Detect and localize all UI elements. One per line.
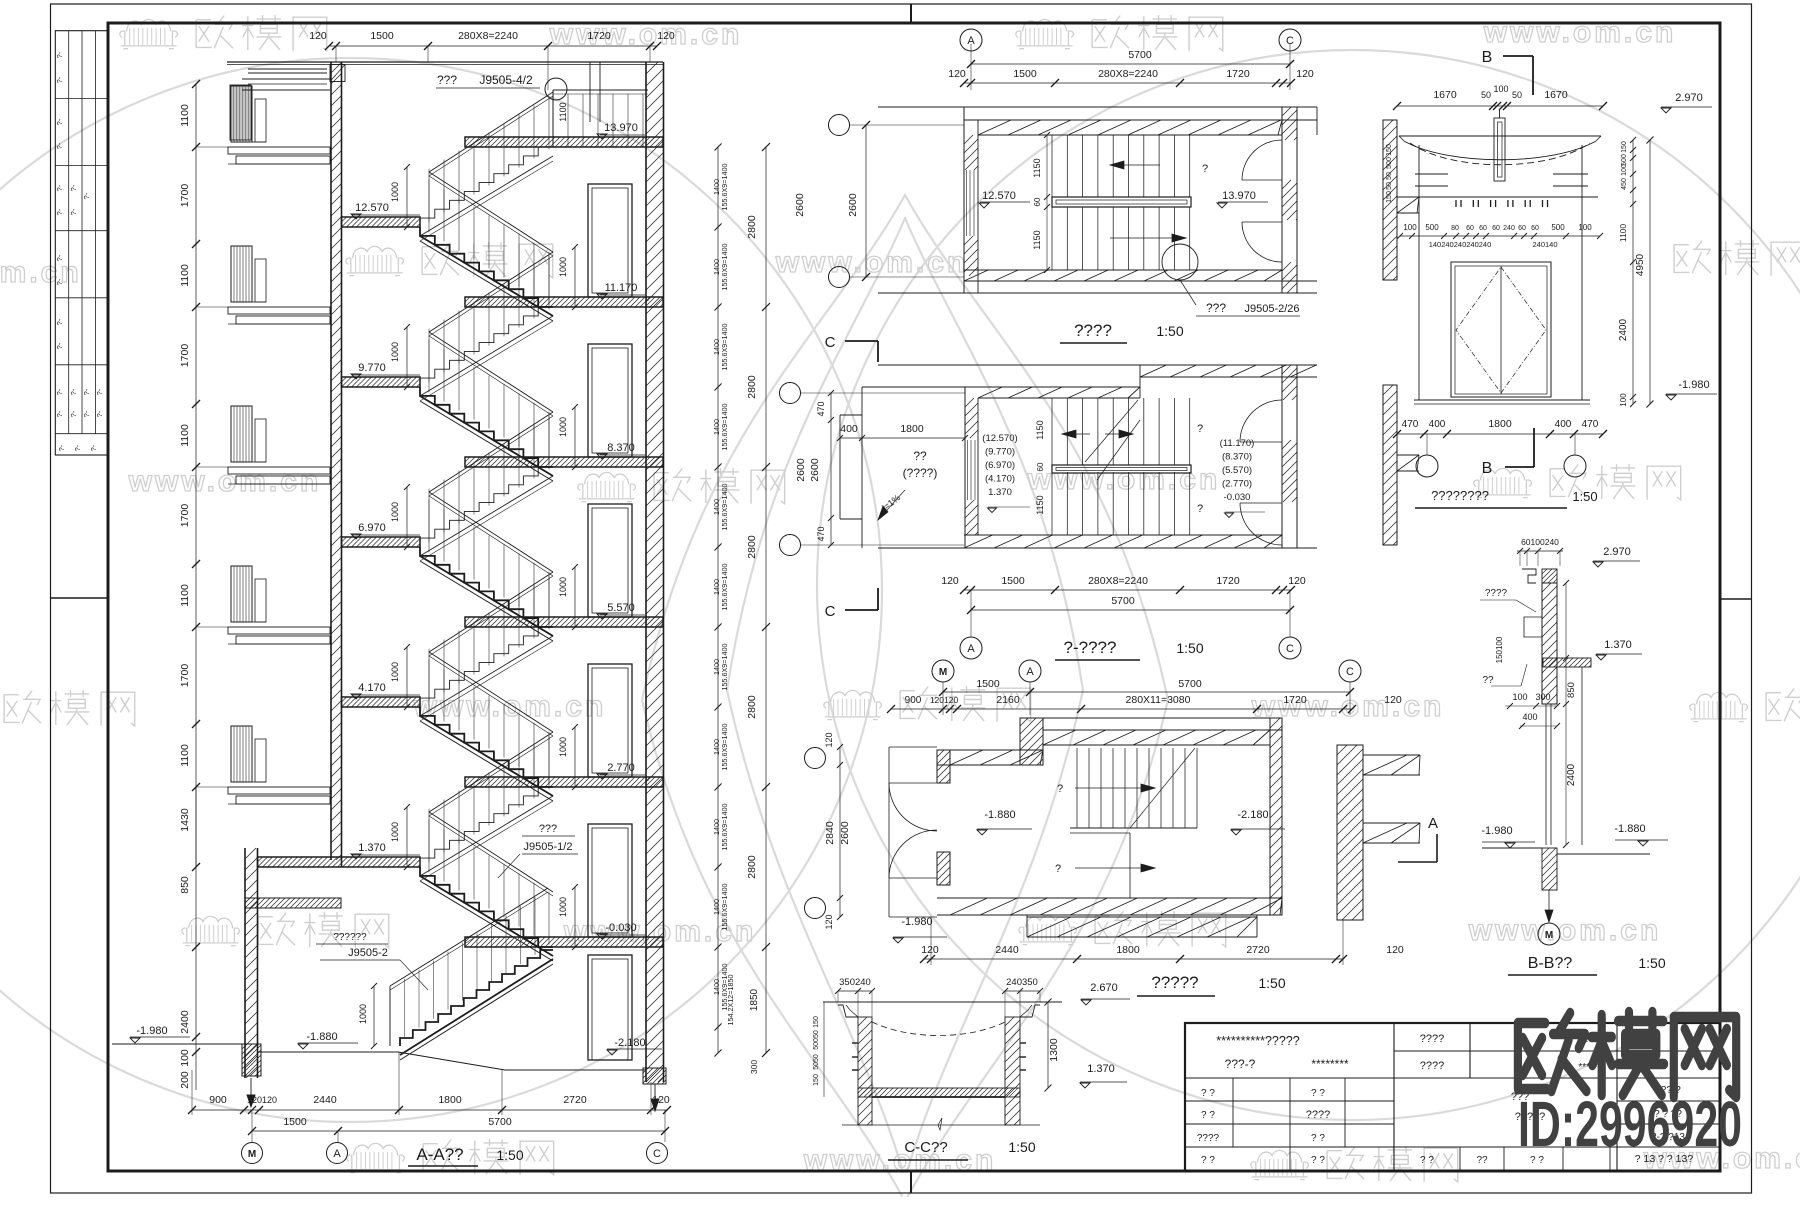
svg-text:1400: 1400: [712, 419, 721, 435]
landing slab 12.570: [342, 217, 421, 227]
svg-text:?????: ?????: [1151, 973, 1198, 992]
svg-text:1800: 1800: [1488, 418, 1512, 430]
svg-text:400: 400: [840, 423, 858, 435]
svg-text:2720: 2720: [1246, 944, 1270, 956]
svg-text:150100: 150100: [1495, 636, 1504, 663]
svg-text:155.6X9=1400: 155.6X9=1400: [720, 644, 729, 691]
svg-text:120120: 120120: [930, 695, 959, 705]
section top dim row: [329, 45, 657, 47]
svg-text:www.om.cn: www.om.cn: [1483, 16, 1677, 49]
svg-text:????????: ????????: [1431, 488, 1489, 503]
svg-text:********: ********: [1311, 1057, 1349, 1071]
svg-text:155.6X9=1400: 155.6X9=1400: [720, 724, 729, 771]
svg-text:-1.980: -1.980: [136, 1025, 167, 1037]
ground plan top wall: [1020, 717, 1282, 719]
svg-text:B: B: [1482, 49, 1493, 66]
std plan treads: [1051, 398, 1053, 465]
svg-text:?-: ?-: [82, 192, 91, 199]
balcony floor 3: [231, 566, 252, 622]
svg-text:J9505-2/26: J9505-2/26: [1244, 303, 1299, 315]
ground floor plan: [805, 660, 1421, 996]
svg-text:5700: 5700: [1178, 678, 1202, 690]
svg-text:???-?: ???-?: [1225, 1057, 1256, 1071]
svg-text:2600: 2600: [839, 821, 851, 845]
svg-text:2800: 2800: [746, 695, 758, 719]
flight sectioned module 3: [420, 707, 553, 787]
svg-text:500: 500: [1425, 223, 1439, 232]
outdoor ground -1.980: [112, 1043, 245, 1045]
svg-text:4.170: 4.170: [358, 682, 386, 694]
svg-text:?-: ?-: [69, 388, 78, 395]
svg-text:120120: 120120: [247, 1095, 277, 1105]
louvers: [1415, 173, 1448, 175]
svg-text:100: 100: [1621, 164, 1628, 176]
svg-text:C: C: [1346, 666, 1354, 678]
svg-text:50: 50: [1386, 182, 1393, 190]
door ground: [588, 955, 632, 1060]
svg-text:www.om.cn: www.om.cn: [413, 690, 607, 723]
svg-text:?-: ?-: [55, 184, 64, 191]
landing slab 4.170: [342, 697, 421, 707]
door floor 3: [588, 664, 632, 777]
ground plan porch outline: [888, 747, 890, 917]
flight elevation module 2: [420, 467, 553, 547]
svg-text:-1.980: -1.980: [1481, 825, 1512, 837]
door floor 0: [588, 184, 632, 297]
flight elevation module 3: [420, 627, 553, 707]
svg-text:1:50: 1:50: [1572, 489, 1597, 504]
svg-text:-0.030: -0.030: [605, 922, 636, 934]
svg-text:154.2X12=1850: 154.2X12=1850: [726, 975, 735, 1026]
svg-text:150: 150: [1386, 191, 1393, 203]
svg-text:1.370: 1.370: [1604, 639, 1632, 651]
standard floor plan: [780, 334, 1420, 660]
svg-text:1500: 1500: [1001, 575, 1025, 587]
svg-text:1.370: 1.370: [988, 487, 1012, 498]
svg-text:1000: 1000: [558, 577, 568, 597]
svg-text:1100: 1100: [179, 584, 191, 607]
svg-text:2600: 2600: [794, 193, 806, 217]
svg-text:155.6X9=1400: 155.6X9=1400: [720, 324, 729, 371]
balcony floor 2: [231, 406, 252, 462]
svg-text:12.570: 12.570: [982, 190, 1016, 202]
svg-text:(9.770): (9.770): [985, 447, 1015, 458]
svg-text:? ?: ? ?: [1201, 1155, 1215, 1166]
svg-text:1:50: 1:50: [1258, 975, 1285, 991]
svg-text:J9505-4/2: J9505-4/2: [479, 73, 533, 87]
top plan balloon leader: [1162, 244, 1198, 280]
svg-text:2800: 2800: [746, 855, 758, 879]
svg-text:300: 300: [1535, 692, 1550, 702]
svg-text:155.6X9=1400: 155.6X9=1400: [720, 244, 729, 291]
svg-text:(11.170): (11.170): [1220, 438, 1255, 449]
section bottom dims: [188, 1052, 671, 1166]
section right dim chains: [712, 143, 806, 1074]
svg-text:?-: ?-: [57, 444, 66, 451]
svg-text:1000: 1000: [390, 502, 400, 522]
door floor 4: [588, 824, 632, 937]
svg-text:? ?: ? ?: [1311, 1133, 1325, 1144]
svg-text:?-: ?-: [55, 254, 64, 261]
svg-text:C: C: [825, 603, 836, 620]
svg-text:1000: 1000: [390, 342, 400, 362]
svg-text:?-: ?-: [55, 142, 64, 149]
svg-text:120: 120: [1384, 694, 1402, 706]
svg-text:????: ????: [1074, 321, 1112, 340]
svg-text:1670: 1670: [1544, 89, 1568, 101]
top plan stair treads: [1051, 135, 1053, 197]
std plan top wall: [878, 364, 1317, 366]
grid bubble C top: [1279, 29, 1301, 51]
svg-text:1:50: 1:50: [1638, 955, 1665, 971]
svg-text:400: 400: [1555, 419, 1572, 430]
svg-text:???: ???: [539, 823, 557, 835]
svg-text:100: 100: [1619, 393, 1628, 407]
svg-text:280X8=2240: 280X8=2240: [1098, 68, 1158, 80]
svg-text:155.6X9=1400: 155.6X9=1400: [720, 484, 729, 531]
svg-text:2720: 2720: [563, 1094, 587, 1106]
svg-text:150: 150: [813, 1016, 820, 1028]
floor slab 8.370: [465, 457, 663, 467]
svg-text:1000: 1000: [558, 737, 568, 757]
svg-text:1:50: 1:50: [1156, 323, 1183, 339]
svg-text:1700: 1700: [179, 664, 191, 688]
svg-text:?-: ?-: [55, 410, 64, 417]
svg-text:1000: 1000: [358, 1004, 368, 1024]
svg-text:1100: 1100: [179, 264, 191, 287]
svg-text:?: ?: [1055, 863, 1061, 875]
svg-text:1300: 1300: [1048, 1038, 1060, 1062]
entrance canopy slab left: [245, 898, 341, 908]
svg-text:50: 50: [1481, 90, 1491, 100]
svg-text:1100: 1100: [179, 104, 191, 127]
flight sectioned module 2: [420, 547, 553, 627]
svg-text:1700: 1700: [179, 344, 191, 368]
svg-text:1800: 1800: [900, 423, 924, 435]
svg-text:A-A??: A-A??: [416, 1145, 463, 1164]
ground plan entry doors: [889, 782, 937, 784]
svg-text:C-C??: C-C??: [904, 1139, 947, 1156]
svg-text:5050: 5050: [813, 1054, 820, 1070]
svg-text:?-: ?-: [55, 118, 64, 125]
svg-text:155.6X9=1400: 155.6X9=1400: [720, 564, 729, 611]
svg-text:240140: 240140: [1532, 240, 1557, 249]
landing slab 1.370: [258, 857, 421, 867]
watermark circle left: [0, 58, 882, 1122]
indoor ground -1.880: [258, 1051, 399, 1053]
title block: [1185, 1023, 1720, 1171]
svg-text:?: ?: [1202, 163, 1208, 175]
svg-text:140240240240240: 140240240240240: [1429, 240, 1492, 249]
svg-text:300: 300: [749, 1060, 759, 1074]
svg-text:60: 60: [1466, 225, 1474, 232]
flight sectioned module 1: [420, 387, 553, 467]
svg-text:1500: 1500: [283, 1116, 307, 1128]
svg-text:?: ?: [1057, 783, 1063, 795]
svg-text:200: 200: [179, 1071, 191, 1089]
svg-text:??: ??: [913, 449, 927, 463]
section left dim chain: [179, 80, 228, 1090]
flight sectioned module 0: [420, 227, 553, 307]
svg-text:?-: ?-: [82, 410, 91, 417]
svg-text:850: 850: [179, 876, 191, 894]
svg-text:?-: ?-: [69, 410, 78, 417]
svg-text:2600: 2600: [847, 193, 859, 217]
svg-text:2600: 2600: [809, 458, 821, 482]
svg-text:450: 450: [1621, 178, 1628, 190]
balloon J9505-4/2: [545, 78, 567, 100]
svg-text:2400: 2400: [1566, 763, 1577, 786]
svg-text:150: 150: [813, 1074, 820, 1086]
svg-text:60100240: 60100240: [1521, 537, 1559, 547]
svg-text:13.970: 13.970: [604, 122, 638, 134]
flight sectioned module 4: [420, 867, 553, 947]
svg-text:12.570: 12.570: [355, 202, 389, 214]
svg-text:470: 470: [816, 401, 826, 416]
svg-text:A: A: [967, 643, 975, 655]
svg-text:100: 100: [1512, 692, 1527, 702]
svg-text:1000: 1000: [558, 417, 568, 437]
grid bubble A top: [960, 29, 982, 51]
svg-text:C: C: [1286, 35, 1294, 47]
svg-text:900: 900: [209, 1094, 227, 1106]
flight elevation module 0: [420, 147, 553, 227]
svg-text:om.cn: om.cn: [0, 256, 82, 289]
right wall footing: [643, 1068, 666, 1084]
svg-text:?-: ?-: [95, 410, 104, 417]
svg-text:1000: 1000: [390, 822, 400, 842]
watermark circle right: [817, 50, 1800, 1120]
svg-text:1400: 1400: [712, 179, 721, 195]
top floor plan: [829, 29, 1420, 343]
svg-text:? ?: ? ?: [1201, 1110, 1215, 1121]
svg-text:??: ??: [1476, 1155, 1488, 1166]
svg-text:9.770: 9.770: [358, 362, 386, 374]
svg-text:-2.180: -2.180: [1237, 809, 1268, 821]
svg-text:1400: 1400: [712, 579, 721, 595]
svg-text:-1.880: -1.880: [984, 809, 1015, 821]
svg-text:1800: 1800: [1116, 944, 1140, 956]
svg-text:? ?: ? ?: [1311, 1155, 1325, 1166]
std plan arrows: [1062, 433, 1090, 435]
svg-text:155.6X9=1400: 155.6X9=1400: [720, 884, 729, 931]
svg-text:2440: 2440: [313, 1094, 337, 1106]
B-B lower wall lines: [1545, 704, 1547, 845]
elevation ground: [1414, 399, 1590, 401]
svg-text:A: A: [967, 35, 975, 47]
svg-text:470: 470: [816, 526, 826, 541]
ground plan bottom lower band: [1027, 916, 1257, 918]
fold marks: [910, 4, 912, 23]
svg-text:1:50: 1:50: [496, 1147, 523, 1163]
svg-text:www.om.cn: www.om.cn: [1468, 914, 1662, 947]
svg-text:120: 120: [948, 68, 966, 80]
svg-text:5.570: 5.570: [607, 602, 635, 614]
svg-text:??????: ??????: [333, 932, 367, 943]
svg-text:850: 850: [1566, 682, 1577, 698]
watermark emblem: [642, 195, 1168, 1196]
svg-text:????: ????: [1485, 588, 1508, 599]
top plan left wall: [963, 107, 965, 293]
svg-text:2.970: 2.970: [1675, 92, 1703, 104]
svg-text:M: M: [248, 1149, 256, 1160]
svg-text:????: ????: [1306, 1109, 1330, 1121]
svg-text:????: ????: [1197, 1133, 1220, 1144]
svg-text:6.970: 6.970: [358, 522, 386, 534]
B-B wall section: [1398, 537, 1668, 975]
svg-text:1.370: 1.370: [1087, 1063, 1115, 1075]
svg-text:?-: ?-: [55, 51, 64, 58]
left wall footing: [242, 1044, 261, 1076]
svg-text:1000: 1000: [558, 257, 568, 277]
svg-text:400: 400: [1429, 419, 1446, 430]
svg-text:M: M: [939, 667, 947, 678]
svg-text:M: M: [1545, 930, 1553, 941]
svg-text:A: A: [1428, 815, 1438, 832]
svg-text:1:50: 1:50: [1176, 640, 1203, 656]
bottom entrance flight: [400, 950, 553, 1046]
svg-text:2440: 2440: [995, 944, 1019, 956]
svg-text:280X8=2240: 280X8=2240: [1088, 575, 1148, 587]
top plan bottom wall: [878, 292, 1317, 294]
svg-text:60: 60: [1518, 225, 1526, 232]
svg-text:280X11=3080: 280X11=3080: [1126, 694, 1191, 706]
svg-text:A: A: [333, 1148, 341, 1160]
B-B slab 1.370: [1543, 658, 1591, 667]
svg-text:50050: 50050: [813, 1030, 820, 1050]
svg-text:1000: 1000: [390, 662, 400, 682]
svg-text:-0.030: -0.030: [1224, 492, 1251, 503]
C-C top line: [823, 1001, 1062, 1003]
grid bubble A: [327, 1143, 348, 1164]
svg-text:www.om.cn: www.om.cn: [128, 465, 322, 498]
svg-text:1:50: 1:50: [1008, 1139, 1035, 1155]
svg-text:-1.880: -1.880: [1614, 823, 1645, 835]
balcony floor 0: [231, 86, 252, 142]
svg-text:60: 60: [1531, 225, 1539, 232]
svg-text:C: C: [825, 334, 836, 351]
svg-text:120: 120: [657, 30, 675, 42]
svg-text:2800: 2800: [746, 375, 758, 399]
svg-text:**********?????: **********?????: [1216, 1034, 1299, 1048]
svg-text:100: 100: [179, 1049, 191, 1067]
std plan shaft wall right: [1383, 385, 1397, 545]
C-C slab: [858, 1088, 1020, 1097]
svg-text:2800: 2800: [746, 535, 758, 559]
svg-text:50: 50: [1512, 90, 1522, 100]
svg-text:1100: 1100: [179, 744, 191, 767]
top plan top wall: [878, 106, 1317, 108]
svg-text:470: 470: [1402, 419, 1419, 430]
canopy mast: [1494, 118, 1505, 181]
svg-text:(8.370): (8.370): [1222, 452, 1252, 463]
svg-text:B: B: [1482, 460, 1493, 477]
svg-text:500: 500: [1621, 154, 1628, 166]
svg-text:280X8=2240: 280X8=2240: [458, 30, 518, 42]
svg-text:155.6X9=1400: 155.6X9=1400: [720, 404, 729, 451]
svg-text:1150: 1150: [1035, 495, 1045, 514]
section A-A view: [112, 30, 806, 1166]
door floor 1: [588, 344, 632, 457]
svg-text:100: 100: [1403, 223, 1417, 232]
svg-text:2800: 2800: [746, 215, 758, 239]
svg-text:11.170: 11.170: [605, 282, 638, 294]
ground plan treads: [1076, 748, 1078, 828]
C-C cornices: [838, 1005, 858, 1017]
svg-text:?-: ?-: [55, 278, 64, 285]
svg-text:1500: 1500: [1013, 68, 1037, 80]
svg-text:?-: ?-: [89, 444, 98, 451]
svg-text:1000: 1000: [390, 182, 400, 202]
svg-text:60: 60: [1492, 225, 1500, 232]
ground plan top bubbles: [932, 660, 954, 682]
svg-text:240350: 240350: [1006, 977, 1038, 988]
svg-text:ID:2996920: ID:2996920: [1518, 1088, 1742, 1160]
svg-text:120: 120: [941, 575, 959, 587]
svg-text:A: A: [1026, 666, 1034, 678]
svg-text:120: 120: [1386, 944, 1404, 956]
svg-text:1800: 1800: [438, 1094, 462, 1106]
svg-text:1150: 1150: [1032, 158, 1042, 177]
floor slab 11.170: [465, 297, 663, 307]
ground plan bottom wall: [937, 897, 1282, 899]
balcony floor 4: [231, 726, 252, 782]
elevation door: [1451, 262, 1551, 397]
svg-text:2160: 2160: [996, 694, 1020, 706]
svg-text:500: 500: [1551, 223, 1565, 232]
svg-text:1720: 1720: [1226, 68, 1250, 80]
svg-text:470: 470: [1582, 419, 1599, 430]
svg-text:13.970: 13.970: [1222, 190, 1256, 202]
svg-text:1.370: 1.370: [358, 842, 386, 854]
svg-text:?: ?: [1197, 503, 1203, 515]
svg-text:350240: 350240: [839, 977, 871, 988]
svg-text:2.970: 2.970: [1603, 546, 1631, 558]
svg-text:1400: 1400: [712, 499, 721, 515]
svg-text:-1.980: -1.980: [901, 916, 932, 928]
svg-text:1100: 1100: [179, 424, 191, 447]
svg-text:1400: 1400: [712, 979, 721, 995]
svg-text:60: 60: [1033, 197, 1042, 206]
svg-text:5700: 5700: [1111, 595, 1135, 607]
svg-text:2.770: 2.770: [607, 762, 635, 774]
svg-text:www.om.cn: www.om.cn: [775, 246, 969, 279]
svg-text:60: 60: [1479, 225, 1487, 232]
svg-text:120: 120: [824, 732, 834, 747]
ground plan left wing wall: [937, 749, 1043, 751]
svg-text:8.370: 8.370: [607, 442, 635, 454]
left revision strip: [55, 31, 108, 455]
svg-text:2840: 2840: [824, 821, 836, 845]
svg-text:1720: 1720: [587, 30, 611, 42]
svg-text:120: 120: [309, 30, 327, 42]
svg-text:240: 240: [1503, 225, 1515, 232]
svg-text:150: 150: [1621, 141, 1628, 153]
B-B bubble: [1538, 923, 1560, 945]
top plan shaft wall right: [1383, 120, 1397, 280]
footing arrows: [250, 1078, 252, 1102]
svg-text:2400: 2400: [179, 1010, 191, 1034]
section lower left wall: [244, 848, 246, 1078]
svg-text:?-: ?-: [55, 208, 64, 215]
std plan right wall: [1281, 365, 1283, 548]
C-C bottom: [842, 1124, 1040, 1126]
svg-text:????: ????: [1420, 1060, 1444, 1072]
svg-text:?-: ?-: [55, 388, 64, 395]
std plan left wall: [964, 387, 966, 548]
floor slab 13.970: [465, 137, 663, 147]
svg-text:1670: 1670: [1433, 89, 1457, 101]
